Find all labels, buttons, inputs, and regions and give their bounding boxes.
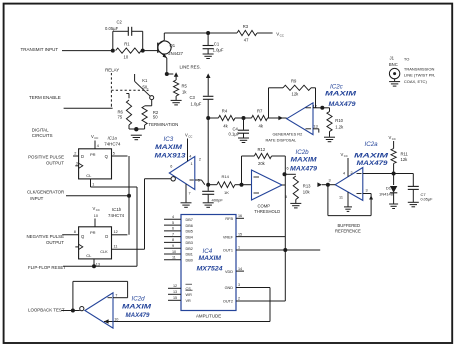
svg-text:13: 13 [96, 262, 100, 266]
svg-text:4: 4 [97, 144, 99, 148]
svg-text:TO: TO [404, 56, 409, 61]
svg-text:R12: R12 [258, 147, 266, 152]
svg-text:8: 8 [172, 238, 174, 242]
svg-text:20k: 20k [258, 161, 266, 166]
svg-text:DB7: DB7 [186, 218, 193, 222]
svg-text:R13: R13 [303, 183, 311, 188]
svg-text:R5: R5 [182, 83, 188, 88]
svg-text:CC: CC [96, 208, 100, 212]
svg-text:PR: PR [90, 230, 96, 235]
svg-text:MAX479: MAX479 [329, 101, 356, 108]
svg-text:OUTPUT: OUTPUT [46, 240, 64, 245]
svg-text:C7: C7 [421, 192, 427, 197]
svg-text:12: 12 [313, 103, 318, 108]
svg-text:5: 5 [285, 195, 287, 199]
svg-text:CC: CC [188, 134, 192, 138]
svg-text:16: 16 [238, 214, 242, 218]
svg-text:TRANSMISSION: TRANSMISSION [404, 66, 435, 71]
svg-text:IC2a: IC2a [365, 141, 379, 148]
svg-text:10: 10 [124, 54, 129, 59]
svg-text:8: 8 [74, 230, 76, 234]
svg-text:INPUT: INPUT [30, 196, 43, 201]
svg-text:VREF: VREF [223, 235, 234, 239]
svg-text:RFB: RFB [225, 217, 233, 221]
svg-text:12: 12 [173, 284, 177, 288]
svg-text:NEGATIVE PULSE: NEGATIVE PULSE [27, 234, 65, 239]
svg-text:AMPLITUDE: AMPLITUDE [196, 313, 221, 318]
svg-text:IC2d: IC2d [132, 295, 146, 302]
svg-text:CL: CL [86, 253, 92, 258]
svg-text:CC: CC [344, 154, 348, 158]
svg-text:12k: 12k [292, 92, 300, 97]
svg-text:VDD: VDD [225, 270, 233, 274]
svg-text:GENERATES R2: GENERATES R2 [273, 131, 303, 136]
svg-text:BUFFERED: BUFFERED [338, 223, 361, 228]
svg-text:POSITIVE PULSE: POSITIVE PULSE [28, 155, 64, 160]
svg-text:3: 3 [238, 283, 240, 287]
svg-text:DB1: DB1 [186, 253, 193, 257]
svg-text:6: 6 [172, 227, 174, 231]
svg-text:3: 3 [76, 161, 78, 165]
svg-text:R3: R3 [243, 24, 249, 29]
svg-text:REFERENCE: REFERENCE [335, 229, 361, 234]
svg-text:C1: C1 [214, 41, 220, 46]
svg-text:2: 2 [351, 171, 353, 175]
svg-text:FLIP-FLOP RESET: FLIP-FLOP RESET [28, 265, 66, 270]
svg-text:DB0: DB0 [186, 259, 193, 263]
svg-text:0.05µF: 0.05µF [421, 197, 434, 201]
svg-text:CL: CL [86, 173, 92, 178]
svg-text:CLK/GENERATOR: CLK/GENERATOR [27, 190, 64, 195]
svg-text:7: 7 [172, 232, 174, 236]
svg-text:50: 50 [153, 115, 158, 120]
svg-text:K1: K1 [142, 78, 148, 83]
svg-text:1.2k: 1.2k [335, 124, 344, 129]
svg-text:6: 6 [287, 167, 289, 171]
svg-text:MAXIM: MAXIM [291, 158, 318, 164]
svg-text:OUT1: OUT1 [223, 249, 233, 253]
svg-text:1.0µF: 1.0µF [213, 47, 224, 52]
svg-text:11: 11 [172, 256, 176, 260]
svg-text:7: 7 [189, 191, 191, 195]
svg-text:0.05µF: 0.05µF [105, 26, 119, 31]
svg-text:R1: R1 [124, 41, 130, 46]
svg-text:2: 2 [238, 297, 240, 301]
svg-text:10: 10 [172, 250, 176, 254]
svg-text:RELAY: RELAY [105, 67, 119, 72]
svg-text:1: 1 [238, 246, 240, 250]
svg-text:MAXIM: MAXIM [199, 256, 223, 262]
svg-text:RATE DISPOSAL: RATE DISPOSAL [266, 137, 297, 142]
svg-text:CC: CC [94, 136, 98, 140]
svg-text:MAXIM: MAXIM [122, 305, 152, 311]
svg-text:12k: 12k [401, 157, 409, 162]
svg-text:R7: R7 [257, 108, 263, 113]
svg-text:D: D [81, 154, 84, 159]
svg-text:WR: WR [186, 293, 193, 297]
svg-text:MAX913: MAX913 [155, 152, 187, 159]
svg-text:DB2: DB2 [186, 247, 193, 251]
svg-text:DIGITAL: DIGITAL [32, 127, 49, 132]
svg-text:R11: R11 [401, 151, 409, 156]
svg-text:OUT2: OUT2 [223, 300, 233, 304]
svg-text:TERM ENABLE: TERM ENABLE [29, 95, 61, 100]
svg-text:SIL: SIL [142, 84, 149, 89]
svg-text:12: 12 [114, 230, 118, 234]
svg-text:CIRCUITS: CIRCUITS [32, 133, 53, 138]
svg-text:COMP: COMP [258, 203, 271, 208]
svg-text:75: 75 [118, 114, 123, 119]
svg-text:IC1b: IC1b [112, 207, 122, 212]
svg-text:LINE (TWIST PR,: LINE (TWIST PR, [404, 73, 435, 78]
svg-text:THRESHOLD: THRESHOLD [254, 209, 280, 214]
svg-text:9: 9 [172, 244, 174, 248]
svg-text:1.0µF: 1.0µF [191, 101, 202, 106]
svg-text:5: 5 [172, 221, 174, 225]
svg-text:0.1µF: 0.1µF [229, 132, 240, 137]
svg-text:DB4: DB4 [186, 235, 193, 239]
svg-text:R9: R9 [291, 79, 297, 84]
svg-text:MAXIM: MAXIM [354, 153, 390, 159]
svg-text:2: 2 [199, 158, 201, 162]
svg-text:DB6: DB6 [186, 224, 193, 228]
svg-text:C3: C3 [189, 95, 195, 100]
svg-text:C2: C2 [117, 19, 123, 24]
svg-text:4: 4 [172, 215, 174, 219]
svg-text:15: 15 [238, 232, 242, 236]
svg-text:J1: J1 [390, 55, 395, 60]
svg-text:10: 10 [114, 318, 118, 322]
svg-text:13: 13 [313, 124, 318, 129]
svg-text:3: 3 [366, 189, 368, 193]
svg-text:GND: GND [225, 286, 234, 290]
svg-text:LINE RES.: LINE RES. [180, 64, 201, 69]
svg-text:10k: 10k [303, 189, 311, 194]
svg-text:IC2c: IC2c [330, 83, 344, 90]
svg-text:5: 5 [113, 151, 115, 155]
svg-text:13: 13 [173, 290, 177, 294]
svg-text:2: 2 [74, 151, 76, 155]
svg-text:D: D [105, 234, 108, 239]
svg-text:3: 3 [329, 178, 331, 182]
svg-text:R10: R10 [335, 118, 343, 123]
svg-text:1: 1 [92, 182, 94, 186]
svg-text:4: 4 [343, 171, 345, 175]
svg-text:Q1: Q1 [170, 43, 176, 48]
svg-text:1N4148: 1N4148 [379, 191, 394, 196]
svg-text:MAX479: MAX479 [290, 166, 317, 173]
svg-text:OUTPUT: OUTPUT [46, 161, 64, 166]
svg-text:VR: VR [186, 299, 192, 303]
svg-text:400pF: 400pF [212, 197, 224, 202]
svg-text:11: 11 [339, 196, 343, 200]
svg-text:R14: R14 [222, 174, 230, 179]
svg-text:MX7524: MX7524 [197, 265, 223, 272]
svg-text:BNC: BNC [389, 62, 398, 67]
svg-text:IC1a: IC1a [108, 135, 118, 140]
svg-text:2N4427: 2N4427 [168, 51, 183, 56]
svg-text:COAX, ETC): COAX, ETC) [404, 79, 428, 84]
svg-text:IC2b: IC2b [296, 149, 310, 156]
svg-text:10: 10 [94, 214, 98, 218]
svg-text:MAX479: MAX479 [126, 312, 150, 319]
svg-text:IC3: IC3 [164, 136, 174, 143]
svg-text:47: 47 [244, 38, 249, 43]
svg-text:MAXIM: MAXIM [325, 92, 358, 98]
svg-text:CC: CC [392, 137, 396, 141]
svg-text:IC4: IC4 [203, 248, 213, 255]
svg-text:DB5: DB5 [186, 230, 193, 234]
svg-text:1: 1 [191, 162, 193, 166]
svg-text:TRANSMIT INPUT: TRANSMIT INPUT [21, 47, 59, 52]
svg-text:PR: PR [90, 152, 96, 157]
svg-text:MAX479: MAX479 [357, 160, 389, 167]
svg-text:MAXIM: MAXIM [155, 145, 183, 151]
svg-text:R4: R4 [222, 108, 228, 113]
svg-text:DB3: DB3 [186, 241, 193, 245]
svg-text:11: 11 [114, 244, 118, 248]
svg-text:D1: D1 [386, 185, 392, 190]
svg-text:14: 14 [238, 267, 242, 271]
svg-text:6: 6 [170, 164, 172, 168]
svg-text:CLK: CLK [100, 250, 108, 254]
svg-text:TERMINATION: TERMINATION [148, 122, 178, 127]
svg-text:4: 4 [189, 155, 191, 159]
svg-text:74HC74: 74HC74 [104, 141, 121, 146]
svg-text:15: 15 [173, 296, 177, 300]
svg-text:LOOPBACK TEST: LOOPBACK TEST [28, 307, 65, 312]
svg-text:1K: 1K [224, 190, 229, 195]
svg-text:74HC74: 74HC74 [108, 213, 125, 218]
svg-text:7: 7 [115, 293, 117, 297]
